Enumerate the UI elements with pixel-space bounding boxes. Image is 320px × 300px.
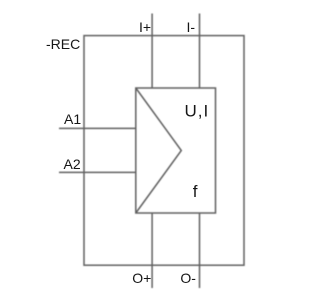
svg-text:U,I: U,I <box>185 101 210 120</box>
svg-text:A1: A1 <box>64 111 81 127</box>
svg-text:f: f <box>193 182 198 201</box>
svg-text:O-: O- <box>180 270 196 286</box>
svg-text:O+: O+ <box>132 270 151 286</box>
svg-text:I-: I- <box>187 19 196 35</box>
svg-text:I+: I+ <box>139 19 151 35</box>
svg-text:-REC: -REC <box>46 36 80 52</box>
svg-text:A2: A2 <box>64 156 81 172</box>
